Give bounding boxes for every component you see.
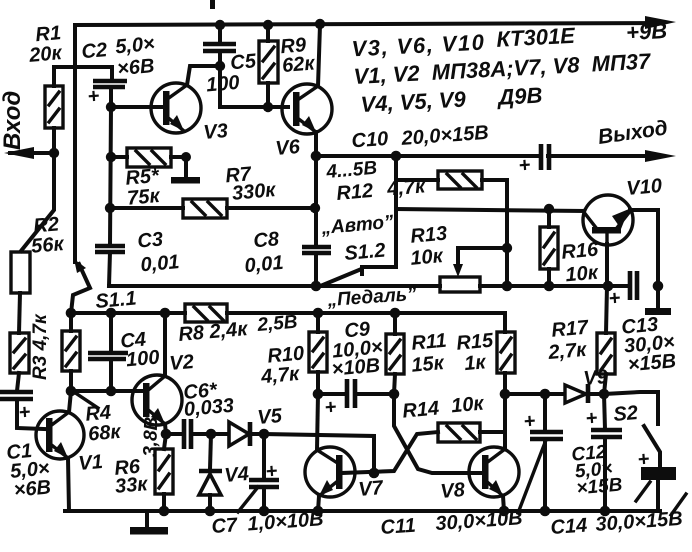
node output arrow Выход <box>645 150 676 162</box>
svg-text:С10: С10 <box>351 128 389 153</box>
label parts list line1 <box>351 18 668 62</box>
label C5 <box>204 50 260 96</box>
wire V3 collector to C5 node <box>187 66 220 85</box>
wire x316 bus V6 emitter to C8 <box>314 156 318 246</box>
svg-text:10к: 10к <box>565 262 600 287</box>
wire bus y313 <box>71 311 185 315</box>
node junction R4/V1 collector <box>66 386 77 397</box>
wire V6 emitter down <box>314 132 318 157</box>
capacitor C8 0.01 <box>302 247 331 286</box>
resistor R7 330k <box>110 199 315 218</box>
node C14 label leader <box>636 482 650 501</box>
resistor R3 4.7k <box>10 333 29 373</box>
svg-text:R13: R13 <box>410 223 448 248</box>
wire R13 wiper <box>458 248 507 268</box>
wire S1.2 contact nub <box>360 267 364 274</box>
svg-text:КТ301Е: КТ301Е <box>496 23 577 52</box>
label R1 <box>26 22 64 67</box>
wire V10 lower lead <box>605 244 609 286</box>
wire C1 to V1 base <box>17 399 45 429</box>
node input arrow Вход <box>4 147 34 159</box>
resistor R12 4.7k <box>396 171 507 189</box>
transistor V3 <box>151 83 201 133</box>
svg-text:V7: V7 <box>358 477 385 501</box>
svg-text:R12: R12 <box>336 180 374 205</box>
wire V6 collector to rail <box>318 25 320 86</box>
node junction R15/V8 collector/V9 wire <box>500 389 511 400</box>
label R4 <box>85 401 123 446</box>
resistor R8 2.4k <box>185 304 505 322</box>
node junction V5/C7 <box>259 429 270 440</box>
node R13 wiper arrow <box>453 264 463 277</box>
svg-text:×15В: ×15В <box>627 350 677 376</box>
wire V1 collector up <box>69 391 71 412</box>
capacitor C14 30.0x15V <box>637 448 676 511</box>
resistor R5 75k <box>111 148 186 167</box>
capacitor C9 10.0x10V <box>318 379 394 419</box>
wire output line C10 <box>316 154 538 158</box>
label C3 <box>137 227 181 276</box>
wire x110 bus C2 to C3 <box>110 107 111 245</box>
node junction input/R1 <box>49 148 59 158</box>
svg-text:330к: 330к <box>231 179 277 205</box>
ground symbol bar <box>130 527 168 535</box>
transistor V10 <box>583 195 633 249</box>
diode V4 <box>199 434 222 511</box>
wire C2 bottom to V3 base <box>111 87 162 107</box>
node junction R6 on rail <box>159 506 170 517</box>
wire feedback y209 <box>396 209 584 211</box>
svg-text:+: + <box>608 287 622 310</box>
node junction V2 collector top <box>160 308 171 319</box>
label R16 <box>561 238 602 286</box>
ground chassis bar right <box>645 308 671 315</box>
svg-text:V8: V8 <box>440 479 467 503</box>
svg-text:×15В: ×15В <box>576 474 624 499</box>
node junction V3 emitter / R5 <box>181 152 191 162</box>
label C9 <box>328 317 386 380</box>
label C13 <box>621 312 678 376</box>
resistor R1 20k <box>45 86 63 128</box>
label R11 <box>409 330 450 377</box>
wire R12 right vertical x507 <box>505 180 509 286</box>
svg-text:+: + <box>18 401 32 424</box>
resistor R2 56k <box>11 252 30 293</box>
resistor R17 2.7k <box>597 286 615 394</box>
resistor R6 33k <box>155 434 173 511</box>
svg-text:+9В: +9В <box>625 18 667 45</box>
node junction R11/C9 <box>389 389 400 400</box>
svg-text:V5: V5 <box>257 405 284 429</box>
svg-text:×6В: ×6В <box>13 476 52 501</box>
node junction R7 right on x316 bus <box>310 203 320 213</box>
label parts list line3 <box>360 82 543 116</box>
node junction C2/V3 base <box>106 102 116 112</box>
svg-text:10к: 10к <box>450 393 485 418</box>
svg-text:V10: V10 <box>626 175 663 200</box>
label R15 <box>456 329 497 375</box>
svg-text:+: + <box>518 154 532 177</box>
svg-text:R16: R16 <box>561 238 600 263</box>
node junction S1.2 feed on output line <box>391 151 402 162</box>
node junction C12 on rail <box>600 506 611 517</box>
svg-text:R15: R15 <box>456 329 495 354</box>
label C10 <box>351 121 490 154</box>
decorative tick top edge <box>210 0 215 9</box>
resistor R15 1k <box>497 332 515 394</box>
node junction wiper / x507 <box>502 243 512 253</box>
ground chassis bar under V3 <box>171 177 200 184</box>
resistor R9 62k <box>259 25 278 107</box>
resistor R14 10k <box>438 423 505 442</box>
svg-text:V6: V6 <box>275 136 302 160</box>
wire V7 emitter to rail <box>318 496 319 511</box>
wire C5 node down to V6 base <box>220 66 288 107</box>
svg-text:4,7к: 4,7к <box>259 363 301 388</box>
label R12 <box>336 175 427 205</box>
node junction R10 top on y313 <box>313 308 324 319</box>
wire S1.2 feed vertical x396 <box>362 156 396 267</box>
svg-text:R14: R14 <box>402 397 440 422</box>
wire V5 node to V7 base <box>264 434 374 473</box>
node C7 label leader <box>238 487 258 512</box>
svg-text:+: + <box>585 407 599 430</box>
svg-text:С14: С14 <box>550 514 588 539</box>
switch S1.1 arm barb <box>74 259 86 273</box>
label C7 <box>211 508 324 538</box>
resistor R16 10k <box>540 209 558 287</box>
resistor R4 68k <box>62 313 80 391</box>
capacitor C10 20.0x15V <box>518 144 549 177</box>
svg-text:100: 100 <box>205 72 240 97</box>
svg-text:S2: S2 <box>613 402 639 426</box>
svg-text:Вход: Вход <box>0 91 26 150</box>
label R9 <box>280 33 317 77</box>
svg-text:С11: С11 <box>380 515 417 539</box>
label R14 <box>401 393 485 423</box>
svg-text:33к: 33к <box>114 473 149 498</box>
node junction C5/V3 collector <box>215 61 225 71</box>
wire V7 base to R14 <box>341 432 438 473</box>
wire bus y286 from C3 to chassis <box>109 284 440 288</box>
switch S2 arm <box>644 426 660 467</box>
node junction V10/R17 on y286 <box>603 281 614 292</box>
label R17 <box>545 316 592 364</box>
label C8 <box>242 228 285 277</box>
wire V8 collector up <box>503 394 507 448</box>
node C14 label slash <box>671 494 686 515</box>
diode V5 <box>211 422 264 446</box>
transistor V2 <box>132 375 182 425</box>
wire y286 right of R13 <box>480 284 629 288</box>
svg-text:0,01: 0,01 <box>244 252 285 277</box>
wire cross coupling R11 node to V8 base <box>394 394 482 473</box>
svg-text:2,5В: 2,5В <box>256 312 299 337</box>
svg-text:R11: R11 <box>411 330 448 355</box>
wire V9 node to S2 contact <box>604 392 658 424</box>
wire V10 upper lead to chassis column <box>630 210 658 309</box>
node junction R16 top <box>544 204 554 214</box>
wire V2 emitter down <box>165 424 166 434</box>
node junction R11 top on y313 <box>390 308 401 319</box>
node C11 label leader <box>518 440 546 513</box>
diode V9 <box>565 384 604 403</box>
transistor V1 <box>36 411 84 459</box>
label C11 <box>380 507 523 539</box>
capacitor C3 0.01 <box>95 246 125 286</box>
wire +9V top rail <box>75 23 660 262</box>
node junction V8 emitter on rail <box>499 506 510 517</box>
transistor V6 <box>282 84 332 134</box>
node R4 label leader <box>74 392 98 408</box>
wire R2 to R3 <box>19 293 20 333</box>
potentiometer R13 10k body <box>440 277 480 292</box>
node junction C7 on rail <box>259 506 270 517</box>
node junction R16 bottom on y286 <box>544 281 555 292</box>
svg-text:×6В: ×6В <box>116 55 155 80</box>
svg-text:С8: С8 <box>253 228 281 252</box>
label R2 <box>29 213 66 258</box>
node junction S1.2 pole <box>311 281 322 292</box>
wire output line to arrow <box>548 154 662 158</box>
transistor V8 <box>469 447 519 497</box>
svg-text:20к: 20к <box>27 42 63 67</box>
svg-text:100: 100 <box>125 347 160 372</box>
node junction R10/C9/V7 collector <box>313 389 324 400</box>
node junction C4 bottom <box>106 386 117 397</box>
node junction C11 top <box>540 389 551 400</box>
label C4 <box>120 328 161 372</box>
node junction R12 bottom on y286 <box>502 281 513 292</box>
svg-text:+: + <box>265 460 279 483</box>
wire y313 corner down to R15 <box>503 313 507 332</box>
label R13 <box>408 223 450 270</box>
label R5 <box>125 165 163 210</box>
svg-text:S1.2: S1.2 <box>344 239 387 265</box>
svg-text:68к: 68к <box>87 421 122 446</box>
node junction C6/V5/V4 <box>206 429 217 440</box>
resistor R10 4.7k <box>309 313 327 394</box>
svg-text:V4: V4 <box>224 463 250 487</box>
wire V7 collector up <box>317 394 318 450</box>
capacitor C6 0.033 <box>166 419 211 449</box>
capacitor C4 100 <box>88 313 128 391</box>
node junction R7 left <box>105 203 115 213</box>
label C1 <box>6 439 53 502</box>
label C2 value <box>80 33 157 83</box>
svg-text:62к: 62к <box>281 52 316 77</box>
node junction V6 emitter / output line <box>311 151 322 162</box>
node junction C5 top on rail <box>215 20 225 30</box>
svg-text:75к: 75к <box>126 185 161 210</box>
capacitor C5 100 <box>203 25 236 66</box>
svg-text:15к: 15к <box>410 352 445 377</box>
node junction V2 emitter / C6 / R6 <box>161 429 172 440</box>
svg-text:2,7к: 2,7к <box>546 339 588 364</box>
wire R1 top to C2 feed <box>54 67 112 86</box>
svg-text:V9: V9 <box>583 366 610 390</box>
node junction C11 on rail <box>540 506 551 517</box>
node junction x658 / y286 <box>653 281 664 292</box>
node junction V6 collector on rail <box>315 19 325 29</box>
node junction V4 on rail <box>205 506 216 517</box>
svg-text:3,8В: 3,8В <box>140 416 162 457</box>
svg-text:0,01: 0,01 <box>140 251 181 276</box>
svg-text:V2: V2 <box>169 351 195 375</box>
transistor V7 mirrored <box>305 447 355 497</box>
wire R1 bottom <box>52 128 56 153</box>
wire V1 emitter to rail <box>68 458 69 511</box>
svg-text:+: + <box>87 85 101 108</box>
node junction R5 left on x110 bus <box>106 152 116 162</box>
svg-text:10к: 10к <box>409 245 444 270</box>
switch S1.2 arm <box>318 270 359 287</box>
svg-text:+: + <box>324 396 338 419</box>
svg-text:С3: С3 <box>137 228 164 252</box>
capacitor C1 5.0x6V <box>0 392 33 424</box>
label R7 <box>225 161 278 205</box>
svg-text:4,7к: 4,7к <box>385 175 427 200</box>
wire V2 collector up <box>163 313 167 376</box>
node junction S1.1 / R4 top <box>66 308 77 319</box>
wire V3 emitter down through R5 node <box>184 157 188 179</box>
wire R3 to C1 <box>17 373 19 391</box>
wire ground rail bottom <box>65 509 660 513</box>
svg-text:+: + <box>523 410 537 433</box>
svg-text:0,033: 0,033 <box>183 395 235 421</box>
node +9V rail arrow <box>645 16 676 29</box>
svg-text:Д9В: Д9В <box>496 82 543 109</box>
svg-text:+: + <box>637 448 651 471</box>
node junction R9 top on rail <box>263 20 273 30</box>
svg-text:56к: 56к <box>30 233 65 258</box>
node junction R17 bottom / V9 <box>599 389 610 400</box>
switch S1.1 arm <box>71 264 90 313</box>
node junction C4 top <box>106 308 117 319</box>
svg-text:С2: С2 <box>81 39 108 63</box>
svg-text:R17: R17 <box>551 316 590 341</box>
label C12 <box>571 441 624 500</box>
capacitor C11 30.0x10V <box>523 394 563 511</box>
wire V8 emitter to rail <box>503 496 504 511</box>
svg-text:С5: С5 <box>229 50 257 74</box>
node junction R9 bottom <box>263 102 273 112</box>
ground symbol stub <box>145 511 149 528</box>
capacitor C2 5.0x6V <box>87 81 127 108</box>
svg-text:S1.1: S1.1 <box>95 287 138 313</box>
node junction V7 base <box>369 468 380 479</box>
wire input line <box>10 151 54 155</box>
capacitor C7 1.0x10V <box>249 434 279 511</box>
label C6 <box>182 378 235 421</box>
node junction V7 emitter on rail <box>313 506 324 517</box>
wire V9 feed y394 <box>505 392 566 396</box>
svg-text:V3: V3 <box>203 120 229 144</box>
label C14 <box>550 508 684 539</box>
svg-text:1к: 1к <box>463 351 487 375</box>
resistor R11 15k <box>386 313 404 394</box>
capacitor C12 5.0x15V <box>585 394 622 511</box>
label R10 <box>258 342 307 388</box>
capacitor C13 30.0x15V <box>608 271 637 310</box>
svg-text:R3 4,7к: R3 4,7к <box>30 313 51 380</box>
wire V1 collector to V2 base <box>71 389 145 393</box>
svg-text:С7: С7 <box>211 514 239 538</box>
label R6 <box>113 455 150 498</box>
wire R2 from input down <box>21 153 54 251</box>
svg-text:V1: V1 <box>78 451 104 475</box>
svg-text:×10В: ×10В <box>331 355 381 381</box>
